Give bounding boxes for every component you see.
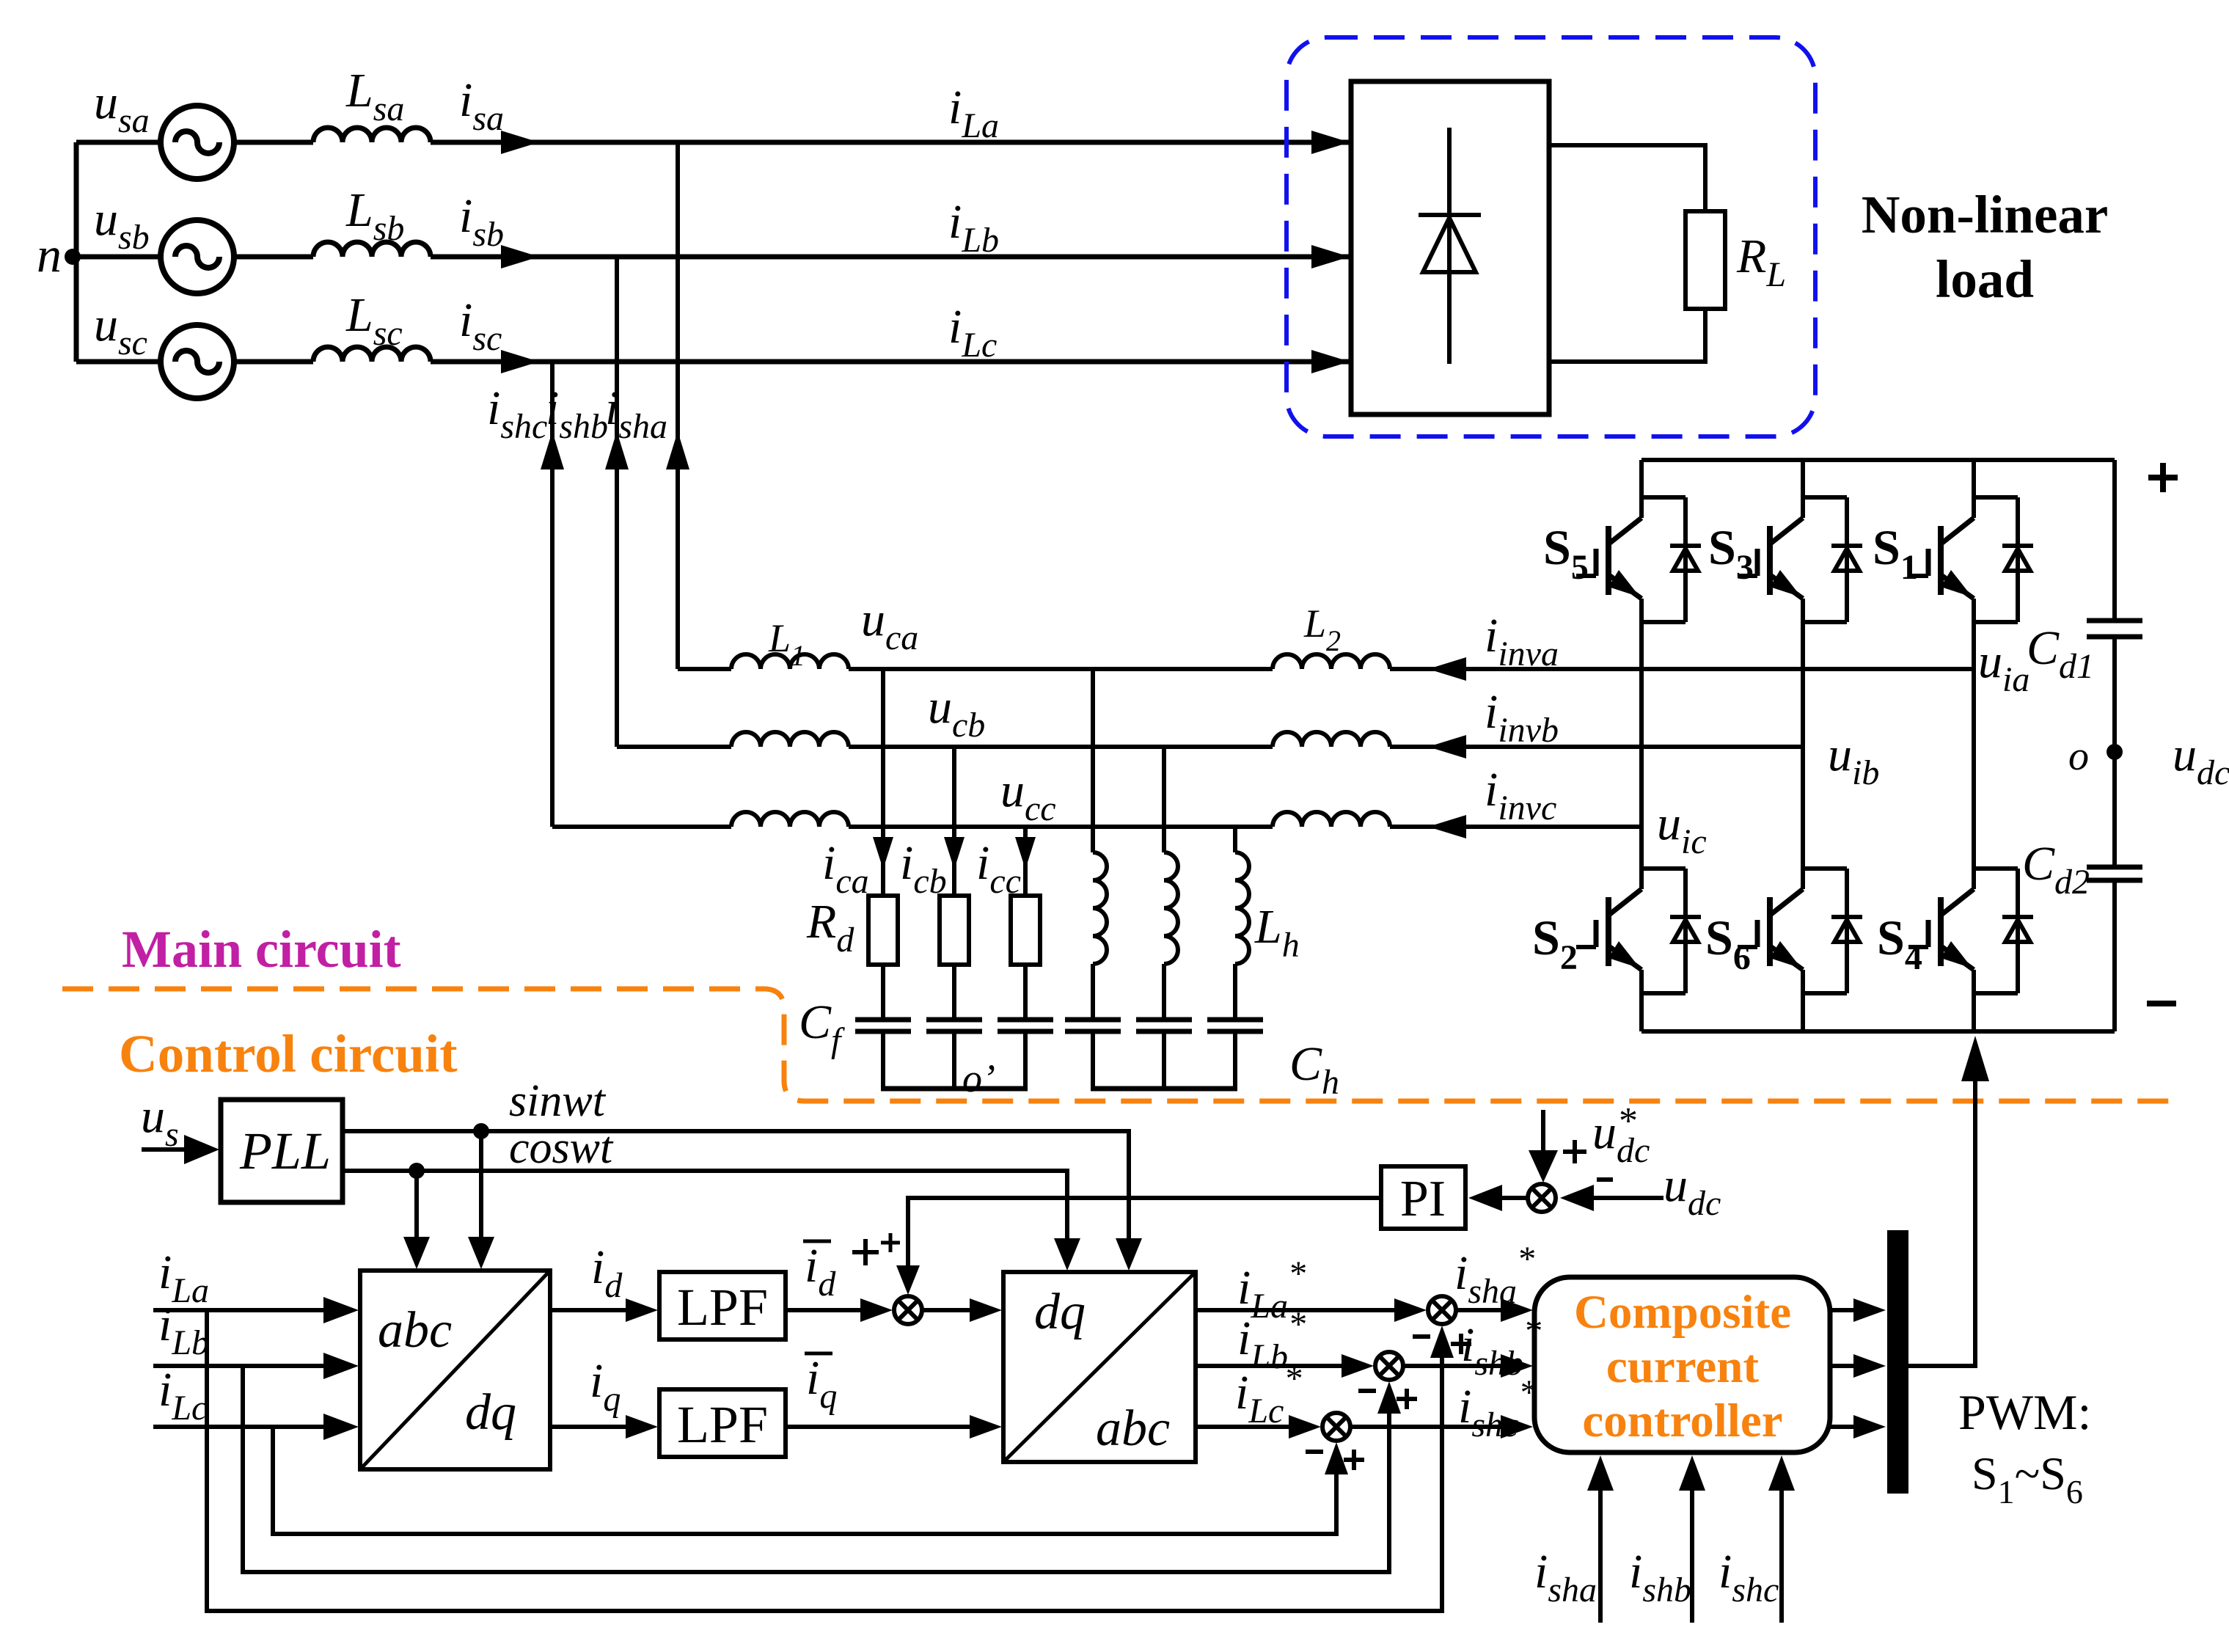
inductor L1 b <box>731 732 849 747</box>
capacitor C_h 2 <box>1136 1017 1192 1023</box>
svg-text:dq: dq <box>1034 1284 1086 1340</box>
arrow sinwt into abc-dq <box>468 1237 494 1269</box>
inductor L_h 3 <box>1235 852 1249 964</box>
block PLL <box>221 1100 343 1202</box>
wire below C_f 1 <box>881 1034 885 1089</box>
wire: i_Lb* out <box>1196 1364 1342 1368</box>
inductor L1 c <box>731 812 849 827</box>
wire: dc bus <box>2112 460 2117 618</box>
minus terminal <box>2147 1001 2176 1006</box>
wire: leg a <box>1972 460 1976 518</box>
wire: L_h branch 1 bottom <box>1091 1034 1095 1089</box>
wire: i_shc vertical <box>550 362 554 827</box>
svg-text:sinwt: sinwt <box>509 1076 607 1126</box>
transistor S2 <box>1576 869 1701 993</box>
arrow i_cc <box>1015 837 1036 869</box>
arrow i_invb <box>1428 735 1466 759</box>
capacitor C_d2 <box>2087 865 2142 870</box>
node n <box>65 249 81 265</box>
wire: i_Lc feedback <box>273 1427 1336 1534</box>
arrow sinwt into dq-abc <box>1116 1238 1142 1271</box>
svg-text:o: o <box>2068 734 2089 779</box>
block LPF 1 <box>659 1272 786 1339</box>
summing junction a <box>1428 1296 1456 1324</box>
wire: phase a line <box>76 140 161 145</box>
wire: leg c <box>1639 460 1644 518</box>
summing junction 1 <box>894 1296 922 1324</box>
arrow into load a <box>1311 131 1350 154</box>
arrow i_sha <box>666 431 689 469</box>
summing junction c <box>1322 1413 1350 1441</box>
wire: branch i_ca <box>881 669 885 896</box>
arrow into load c <box>1311 350 1350 373</box>
capacitor C_f 1 <box>855 1017 911 1023</box>
arrow i_shc <box>541 431 564 469</box>
block LPF 2 <box>659 1389 786 1457</box>
svg-text:load: load <box>1936 249 2034 309</box>
wire: neutral bus <box>74 142 79 362</box>
wire: controller out c <box>1830 1425 1853 1429</box>
diode D1 <box>1447 128 1452 364</box>
capacitor C_d1 <box>2087 618 2142 624</box>
svg-text:abc: abc <box>1096 1400 1170 1457</box>
wire: L_h branch 3 mid <box>1233 964 1237 1017</box>
resistor R_d 3 <box>1011 896 1040 965</box>
inductor L_sb <box>313 242 431 257</box>
wire: PI output to sum1 <box>908 1198 1381 1265</box>
wire: L_h branch 2 top <box>1162 747 1166 852</box>
wire: coswt branch down <box>414 1171 419 1238</box>
summing junction udc <box>1528 1184 1556 1212</box>
wire: phase c line <box>76 359 161 365</box>
wire: o' bus <box>881 1086 1028 1092</box>
wire: gate drive to inverter <box>1908 1065 1975 1366</box>
wire: L_h branch 1 mid <box>1091 964 1095 1017</box>
arrow i_cb <box>944 837 965 869</box>
svg-text:PLL: PLL <box>239 1122 331 1180</box>
arrow u_s into PLL <box>142 1147 187 1152</box>
wire: coswt line <box>343 1171 1067 1240</box>
wire: u_dc measured <box>1593 1196 1663 1200</box>
wire: sum1 to dq-abc <box>922 1308 970 1312</box>
svg-text:controller: controller <box>1582 1395 1782 1447</box>
wire: LPF1 to sum1 <box>786 1308 860 1312</box>
resistor R_L <box>1686 211 1725 309</box>
arrow i_La feedback into sum a <box>1430 1326 1454 1358</box>
wire: controller out b <box>1830 1364 1853 1368</box>
arrow i_inva <box>1428 657 1466 681</box>
node sinwt junction <box>473 1123 489 1139</box>
transistor S3 <box>1738 497 1862 622</box>
inductor L1 a <box>731 654 849 669</box>
wire: C_h bus <box>1091 1086 1237 1092</box>
wire: i_Lb feedback <box>243 1366 1389 1572</box>
capacitor C_f 2 <box>926 1017 982 1023</box>
wire: controller out a <box>1830 1308 1853 1312</box>
node coswt junction <box>409 1163 425 1179</box>
wire: i_sha* to controller <box>1456 1308 1501 1312</box>
arrow i_invc <box>1428 815 1466 838</box>
wire: i_shb vertical <box>615 257 619 747</box>
wire: i_d <box>550 1308 626 1312</box>
arrow i_shc sense <box>1779 1488 1784 1623</box>
svg-text:Composite: Composite <box>1574 1286 1791 1339</box>
arrow i_sb <box>501 245 539 268</box>
wire: dc bottom rail <box>1641 1029 2115 1034</box>
wire: i_sha vertical <box>676 142 680 669</box>
rectifier box <box>1351 81 1549 414</box>
wire below C_f 3 <box>1023 1034 1028 1089</box>
svg-text:n: n <box>37 227 62 282</box>
wire: L_h branch 2 bottom <box>1162 1034 1166 1089</box>
wire: i_shb* to controller <box>1403 1364 1501 1368</box>
wire: L_h branch 2 mid <box>1162 964 1166 1017</box>
inductor L2 b <box>1273 732 1390 747</box>
wire below R_d 3 <box>1023 965 1028 1017</box>
resistor R_d 2 <box>940 896 969 965</box>
wire: load bottom <box>1549 309 1705 362</box>
inductor L_h 2 <box>1164 852 1178 964</box>
svg-text:Control circuit: Control circuit <box>119 1024 458 1083</box>
wire: i_shc* to controller <box>1350 1425 1501 1429</box>
arrow into load b <box>1311 245 1350 268</box>
wire: L_h branch 3 top <box>1233 827 1237 852</box>
non-linear load dashed box <box>1286 37 1815 436</box>
source u_sb <box>161 220 234 293</box>
wire below R_d 2 <box>952 965 956 1017</box>
svg-text:PI: PI <box>1400 1171 1446 1227</box>
svg-text:dq: dq <box>465 1384 516 1441</box>
svg-text:PWM:: PWM: <box>1958 1384 2091 1440</box>
capacitor C_h 3 <box>1207 1017 1263 1023</box>
wire: sinwt line <box>343 1131 1129 1240</box>
wire: i_q <box>550 1425 626 1429</box>
resistor R_d 1 <box>868 896 898 965</box>
wire: i_Lc* out <box>1196 1425 1289 1429</box>
block composite current controller <box>1534 1277 1830 1452</box>
summing junction b <box>1375 1352 1403 1380</box>
svg-text:abc: abc <box>378 1302 452 1359</box>
wire: dc top rail <box>1641 458 2115 462</box>
capacitor C_f 3 <box>998 1017 1053 1023</box>
svg-text:Main circuit: Main circuit <box>122 920 401 979</box>
wire: i_Lb input <box>153 1364 326 1368</box>
svg-text:LPF: LPF <box>677 1278 768 1337</box>
inductor L_h 1 <box>1093 852 1107 964</box>
wire: L_h branch 1 top <box>1091 669 1095 852</box>
transistor S1 <box>1908 497 2033 622</box>
wire: L_h branch 3 bottom <box>1233 1034 1237 1089</box>
wire: leg b <box>1801 460 1805 518</box>
wire below R_d 1 <box>881 965 885 1017</box>
transistor S5 <box>1576 497 1701 622</box>
block abc-dq transform <box>360 1271 550 1469</box>
block dq-abc transform <box>1003 1272 1196 1462</box>
arrow i_Lc feedback into sum c <box>1325 1442 1348 1474</box>
wire: i_La feedback <box>207 1310 1442 1611</box>
wire below C_f 2 <box>952 1034 956 1089</box>
wire: row c <box>552 825 731 829</box>
wire: branch i_cb <box>952 747 956 896</box>
arrow coswt into abc-dq <box>403 1237 430 1269</box>
transistor S4 <box>1908 869 2033 993</box>
inductor L_sc <box>313 347 431 362</box>
PWM bar <box>1887 1230 1908 1494</box>
arrow i_shb <box>605 431 629 469</box>
wire: u_dc* reference <box>1541 1110 1545 1153</box>
wire: load top <box>1549 145 1705 211</box>
arrow i_sc <box>501 350 539 373</box>
wire: branch i_cc <box>1023 827 1028 896</box>
arrow coswt into dq-abc <box>1054 1238 1080 1271</box>
wire: i_La* out <box>1196 1308 1394 1312</box>
wire: phase b line <box>76 255 162 260</box>
inductor L2 a <box>1273 654 1390 669</box>
arrow i_sa <box>501 131 539 154</box>
inductor L_sa <box>313 128 431 142</box>
wire: LPF2 to dq-abc <box>786 1425 970 1429</box>
wire: sinwt branch down <box>479 1131 483 1238</box>
node o <box>2107 744 2123 760</box>
svg-text:Non-linear: Non-linear <box>1862 185 2109 244</box>
wire: i_Lc input <box>153 1425 326 1429</box>
svg-text:coswt: coswt <box>509 1123 614 1173</box>
arrow i_shb sense <box>1690 1488 1694 1623</box>
wire: i_La input <box>153 1308 326 1312</box>
arrow i_ca <box>873 837 893 869</box>
svg-text:*: * <box>1619 1100 1638 1142</box>
main/control boundary dashed <box>62 989 2183 1101</box>
wire: row b <box>617 745 731 749</box>
source u_sc <box>161 325 234 398</box>
inductor L2 c <box>1273 812 1390 827</box>
arrow i_Lb feedback into sum b <box>1377 1381 1401 1414</box>
plus signs at sum1 <box>852 1250 879 1254</box>
plus terminal <box>2148 475 2178 480</box>
svg-text:current: current <box>1606 1340 1760 1393</box>
wire: udc sum to PI <box>1502 1196 1528 1200</box>
svg-text:o’: o’ <box>962 1056 995 1100</box>
wire: row a <box>678 667 731 671</box>
source u_sa <box>161 106 234 179</box>
capacitor C_h 1 <box>1065 1017 1121 1023</box>
block PI <box>1381 1166 1465 1229</box>
arrow i_sha sense <box>1598 1488 1603 1623</box>
svg-text:LPF: LPF <box>677 1395 768 1454</box>
transistor S6 <box>1738 869 1862 993</box>
